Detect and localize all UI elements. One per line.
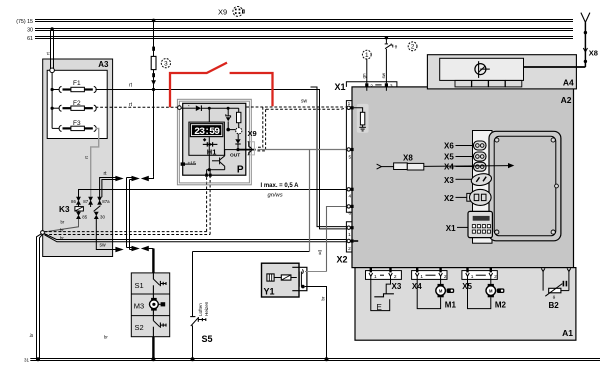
svg-text:4: 4 — [348, 194, 351, 200]
label a (S5 wire) — [318, 251, 322, 256]
Y1 connector — [292, 267, 307, 290]
node F2 feed — [51, 107, 54, 110]
X2 pin 1 — [347, 226, 354, 238]
resistor (output pullup) — [237, 108, 241, 127]
wire F2 output sw dashed to timer input — [96, 106, 180, 108]
fuse F2 — [52, 100, 96, 112]
svg-text:M: M — [439, 288, 443, 293]
svg-text:sw: sw — [381, 72, 386, 78]
heater connector X1 pictorial — [446, 211, 493, 237]
svg-text:2: 2 — [394, 274, 397, 280]
svg-text:87a: 87a — [102, 199, 110, 204]
svg-text:6: 6 — [348, 211, 351, 217]
switch S1 — [135, 279, 167, 290]
svg-text:H1: H1 — [207, 148, 217, 157]
Y1 coil — [281, 275, 291, 280]
wire fuse3 to connector row (arrow left) — [149, 177, 154, 179]
relay K3 — [59, 197, 110, 219]
bus 31 (ground) — [30, 359, 600, 361]
box A1 heat exchanger assembly — [355, 268, 576, 341]
A4 inner receiver box — [440, 58, 524, 80]
bus 15 — [35, 20, 573, 22]
wire coil to 85 — [78, 211, 80, 212]
wire Y1 top pin gray — [305, 271, 327, 273]
heater connector X6 pictorial — [444, 141, 486, 150]
wire circled1 gn to pin2 — [361, 50, 371, 83]
heater unit pictorial: connector strip — [473, 131, 493, 244]
switch S5 vent/heat — [190, 252, 212, 360]
zener diode (protection) — [226, 108, 236, 131]
diode output — [235, 134, 240, 150]
svg-text:30: 30 — [27, 27, 33, 33]
wire timer input — [181, 107, 196, 109]
K3 contact arm — [94, 206, 101, 212]
svg-text:X9: X9 — [248, 129, 257, 138]
resistor inside A2 (pin1 load) — [354, 104, 369, 133]
ground symbol (internal) — [359, 127, 366, 131]
svg-text:2: 2 — [370, 84, 373, 90]
wire F1 output rt to X2 pin1 (doubled heavy wire) — [96, 87, 347, 229]
svg-text:2: 2 — [411, 44, 415, 51]
blower switch box S1/M3/S2 — [131, 273, 169, 337]
A4 connector tabs — [455, 80, 522, 87]
svg-text:M1: M1 — [445, 301, 457, 310]
svg-text:Lüften: Lüften — [198, 303, 203, 316]
svg-text:OUT: OUT — [230, 153, 240, 159]
svg-text:X3: X3 — [444, 176, 454, 185]
connector X9 face view (top) — [218, 6, 244, 16]
node S5/bus31 — [191, 357, 195, 361]
wire 86 to coil — [78, 204, 80, 206]
X1 pin 2 — [365, 83, 373, 91]
svg-text:31: 31 — [24, 358, 30, 363]
timer input pin — [178, 106, 182, 110]
wire A3 internal feed — [51, 73, 53, 129]
wire internal top rail — [201, 107, 238, 109]
svg-text:X9: X9 — [218, 8, 227, 17]
K3 terminal 86 — [77, 197, 81, 204]
svg-text:a: a — [319, 251, 322, 256]
svg-text:1: 1 — [365, 52, 369, 59]
svg-text:X2: X2 — [337, 255, 348, 265]
bus 61 — [35, 37, 573, 39]
X1 pin 3 — [385, 83, 393, 91]
motor M1 — [417, 276, 456, 309]
splice node (ground distribution) — [41, 231, 45, 235]
fuse 3 (circled) feed from bus 15 — [151, 19, 156, 177]
svg-text:M2: M2 — [495, 301, 507, 310]
wire connector row to S1 box (thick sw) — [149, 248, 154, 250]
svg-text:1: 1 — [374, 274, 377, 280]
svg-text:br: br — [29, 333, 34, 337]
X1 pin 6 — [347, 205, 354, 217]
connector arrow link bottom — [132, 246, 140, 252]
svg-text:gn: gn — [361, 73, 366, 79]
svg-text:X3: X3 — [392, 282, 402, 291]
svg-text:X1: X1 — [446, 224, 456, 233]
wire gn/ws X9 to X1 pin5 — [258, 149, 347, 151]
wire junction pair (thick vertical link) — [127, 178, 132, 250]
wire K3-85 br to splice — [44, 219, 79, 232]
wire splice to timer (dashed pair br) — [44, 177, 210, 235]
connector X3 (glow plug) — [366, 268, 402, 292]
wire sw thick below S-box — [152, 337, 154, 360]
K3 terminal 30 — [94, 212, 98, 219]
terminal +15 — [181, 160, 196, 166]
svg-text:+15: +15 — [188, 160, 196, 166]
svg-text:2: 2 — [444, 274, 447, 280]
X1 pin 5 — [347, 148, 354, 161]
svg-text:X1: X1 — [334, 82, 345, 92]
svg-text:M: M — [489, 288, 493, 293]
connector arrow link top — [132, 176, 140, 182]
heater connector X5 pictorial — [444, 152, 486, 161]
connector X4 (dosing pump) — [412, 268, 447, 292]
svg-text:X4: X4 — [444, 163, 454, 172]
connector X9 (timer output plug) — [247, 129, 257, 155]
svg-text:A2: A2 — [561, 95, 572, 105]
box A2 heater — [352, 87, 574, 268]
receiver symbol — [475, 64, 486, 75]
terminal circle A3 input — [50, 68, 55, 73]
svg-text:S2: S2 — [135, 323, 144, 332]
svg-text:br: br — [104, 335, 108, 340]
bus 30 — [35, 29, 573, 31]
svg-text:X2: X2 — [444, 194, 454, 203]
node Y1/bus31 — [325, 357, 329, 361]
svg-text:br: br — [321, 296, 326, 300]
svg-text:23:59: 23:59 — [194, 127, 220, 138]
box A4 receiver — [427, 55, 576, 89]
svg-text:30: 30 — [100, 214, 105, 219]
svg-text:2: 2 — [494, 274, 497, 280]
K3 terminal 85 — [77, 212, 81, 219]
svg-text:X8: X8 — [403, 154, 413, 163]
label circled 3 — [161, 59, 170, 68]
K3 terminal 87a — [98, 197, 102, 204]
svg-text:Y1: Y1 — [264, 287, 275, 297]
wire circled2 thermo switch from bus61 — [381, 36, 417, 83]
transistor Q1 — [209, 150, 238, 170]
wire sw thin inside S-box — [152, 273, 154, 279]
svg-text:(75) 15: (75) 15 — [16, 19, 33, 25]
svg-text:1: 1 — [471, 274, 474, 280]
svg-text:3: 3 — [390, 84, 393, 90]
motor M3 — [134, 298, 165, 311]
svg-text:87: 87 — [83, 199, 88, 204]
svg-text:1: 1 — [348, 101, 351, 107]
svg-text:B2: B2 — [549, 301, 560, 310]
svg-text:61: 61 — [27, 36, 33, 42]
node display feed — [208, 107, 211, 110]
wire K3-86 to X1 pin 4 (long) — [79, 190, 347, 198]
wire F3 output rt (gray) down to K3-87 — [91, 128, 99, 196]
heater unit pictorial: body — [489, 131, 561, 241]
K3 terminal 87 — [89, 197, 93, 204]
svg-text:1: 1 — [420, 274, 423, 280]
wire K3-87a doubled up to connector row — [100, 178, 116, 198]
svg-text:br: br — [60, 228, 64, 233]
svg-text:S1: S1 — [135, 281, 144, 290]
svg-text:sw: sw — [301, 99, 308, 105]
A3 inner fuse box — [47, 70, 107, 138]
svg-text:br: br — [61, 220, 65, 225]
heater connector X2 pictorial — [444, 189, 491, 205]
wire Y1 bottom to bus31 — [305, 287, 327, 360]
output stage circle — [236, 128, 242, 134]
svg-text:A1: A1 — [562, 328, 573, 338]
svg-text:5: 5 — [348, 155, 351, 161]
timer bottom pins — [205, 170, 211, 177]
glow plug E — [371, 276, 394, 312]
wire display feed down — [208, 108, 210, 123]
fuse F3 — [52, 120, 96, 131]
timer clock module sub-box — [189, 122, 225, 155]
svg-text:X6: X6 — [444, 141, 454, 150]
svg-text:Heizen: Heizen — [204, 301, 209, 316]
svg-text:P: P — [237, 165, 244, 176]
svg-text:S5: S5 — [202, 334, 213, 344]
svg-text:M3: M3 — [134, 301, 144, 310]
wire sw dashed (red bridge to X1 pin1) — [246, 107, 345, 151]
switch S2 — [135, 321, 167, 332]
connector X2 bracket — [337, 222, 353, 265]
diode D1 (input) — [196, 105, 202, 111]
svg-text:br: br — [60, 236, 64, 241]
svg-text:sw: sw — [100, 242, 107, 248]
wire S5 horizontal to gn/ws riser — [193, 251, 310, 253]
svg-text:E: E — [377, 303, 382, 312]
X1 pin 1 — [347, 101, 354, 109]
wire bus30 to A3 feed — [51, 31, 54, 71]
solenoid valve Y1 — [262, 263, 307, 297]
K3 coil — [75, 207, 84, 211]
node timer bottom — [208, 168, 211, 171]
timer mounting frame (double) — [177, 99, 251, 185]
cable X8 into heater — [377, 154, 515, 171]
node bus30/A3 junction — [50, 27, 54, 31]
timer P body — [183, 103, 246, 175]
wire splice down to bus 31 — [37, 234, 43, 360]
box A3 control box — [43, 59, 113, 257]
wire splice to X2 pin2 (doubled br) — [44, 234, 347, 242]
svg-text:gn/ws: gn/ws — [268, 192, 283, 198]
svg-text:3: 3 — [164, 61, 168, 68]
temperature sensor B2 — [541, 268, 570, 310]
svg-text:K3: K3 — [59, 205, 70, 214]
wire display to bottom node — [208, 137, 210, 170]
connector X5 (combustion fan) — [462, 268, 497, 292]
svg-text:86: 86 — [71, 199, 76, 204]
connector arrow 87a wire — [115, 176, 123, 182]
svg-text:85: 85 — [82, 214, 87, 219]
red jumper wire (modification) — [170, 63, 273, 108]
svg-text:A3: A3 — [98, 60, 109, 69]
connector X1 bracket (harness side) — [334, 82, 396, 213]
svg-text:X8: X8 — [589, 49, 598, 58]
node splice/bus31 — [36, 357, 40, 361]
node fuse3/F1 junction — [152, 88, 155, 91]
display 23:59 — [190, 123, 224, 138]
svg-text:F1: F1 — [73, 80, 81, 87]
svg-text:A4: A4 — [563, 78, 574, 88]
wire K3-30 sw to connector row — [96, 219, 115, 250]
svg-text:1: 1 — [348, 232, 351, 238]
svg-text:2: 2 — [348, 246, 351, 252]
heater connector X3 pictorial — [444, 172, 492, 187]
fuse F1 — [52, 80, 96, 93]
wire gn/ws riser (gray) — [309, 150, 311, 252]
node OUT — [236, 148, 239, 151]
node S1 wire/bus31 — [151, 357, 155, 361]
heater connector X4 pictorial — [444, 162, 486, 171]
LED H1 — [203, 138, 218, 157]
X1 pin 4 — [347, 188, 354, 200]
node zener feed — [227, 107, 230, 110]
motor M2 — [468, 276, 507, 309]
wire 87 stub — [90, 204, 92, 207]
antenna X8 — [524, 13, 598, 67]
svg-text:X5: X5 — [444, 152, 454, 161]
wire X1 pin6 gray down — [327, 207, 347, 272]
node F1 feed — [51, 88, 54, 91]
Y1 valve symbol — [267, 274, 274, 281]
wire OUT to X9 — [238, 149, 256, 151]
X2 pin 2 — [347, 239, 358, 252]
svg-text:I max. = 0,5 A: I max. = 0,5 A — [261, 183, 300, 189]
